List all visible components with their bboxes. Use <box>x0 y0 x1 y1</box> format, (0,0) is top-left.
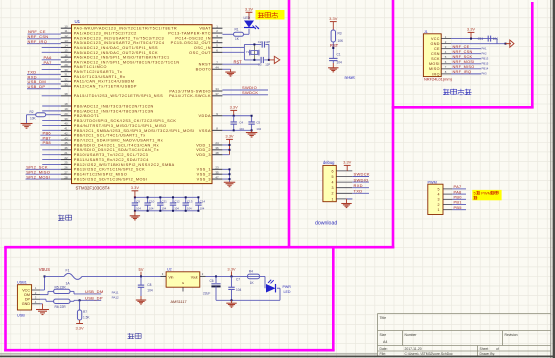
svg-text:19: 19 <box>64 107 68 111</box>
svg-text:Y1: Y1 <box>246 50 250 54</box>
svg-text:43: 43 <box>64 136 68 140</box>
svg-text:RST: RST <box>330 43 339 48</box>
svg-text:CSN: CSN <box>431 52 440 56</box>
svg-text:16: 16 <box>64 53 68 57</box>
svg-text:OSC_OUT: OSC_OUT <box>189 51 211 55</box>
svg-text:C10: C10 <box>149 200 155 204</box>
svg-text:PA2: PA2 <box>482 51 488 55</box>
svg-text:GND: GND <box>22 302 31 306</box>
svg-text:PA1/ADC123_IN1/T5C2/T2C2: PA1/ADC123_IN1/T5C2/T2C2 <box>74 31 137 35</box>
svg-text:Date:: Date: <box>380 347 388 351</box>
svg-text:PA8/T1C1/MCO: PA8/T1C1/MCO <box>74 65 107 69</box>
svg-text:104: 104 <box>187 207 192 211</box>
svg-text:3.3V: 3.3V <box>329 16 338 21</box>
svg-text:DM: DM <box>24 293 30 297</box>
svg-text:PC15-OSC32_OUT: PC15-OSC32_OUT <box>171 41 212 45</box>
svg-text:3: 3 <box>332 186 334 190</box>
svg-text:SWDCK: SWDCK <box>242 90 258 95</box>
svg-text:PA11: PA11 <box>112 291 119 295</box>
svg-text:3.3V: 3.3V <box>343 160 352 165</box>
svg-text:1.5K: 1.5K <box>83 316 90 320</box>
svg-text:1A: 1A <box>66 282 71 286</box>
svg-text:13: 13 <box>64 39 68 43</box>
svg-text:104: 104 <box>162 207 167 211</box>
svg-text:32: 32 <box>64 78 68 82</box>
svg-text:C:\Users\..\STM32\core.SchDoc: C:\Users\..\STM32\core.SchDoc <box>405 352 454 356</box>
svg-text:DP: DP <box>25 298 31 302</box>
svg-text:28: 28 <box>64 175 68 179</box>
svg-text:11: 11 <box>64 29 67 33</box>
svg-text:PWM: PWM <box>481 190 491 195</box>
svg-text:SWDCK: SWDCK <box>354 172 370 177</box>
svg-text:NRF24L01(mm): NRF24L01(mm) <box>424 77 453 82</box>
svg-text:5: 5 <box>332 175 334 179</box>
svg-text:download: download <box>315 220 337 226</box>
svg-text:104: 104 <box>200 207 205 211</box>
svg-text:PA13/JTMS-SWDIO: PA13/JTMS-SWDIO <box>169 89 211 93</box>
svg-text:VCC: VCC <box>431 37 440 41</box>
svg-text:PA10/T1C3/USART1_Rx: PA10/T1C3/USART1_Rx <box>74 75 126 79</box>
svg-text:LED: LED <box>284 290 291 294</box>
svg-text:USB_DM: USB_DM <box>85 289 103 294</box>
svg-text:U1: U1 <box>75 19 81 24</box>
svg-text:2: 2 <box>332 192 334 196</box>
svg-text:21: 21 <box>64 151 68 155</box>
svg-text:C11: C11 <box>478 37 484 41</box>
svg-text:C9: C9 <box>136 200 140 204</box>
svg-text:VBUS: VBUS <box>39 267 50 272</box>
svg-text:104: 104 <box>149 207 154 211</box>
svg-text:GND: GND <box>431 42 440 46</box>
svg-text:3.3V: 3.3V <box>227 266 236 271</box>
svg-text:41: 41 <box>64 127 68 131</box>
svg-text:23: 23 <box>215 166 219 170</box>
svg-text:PB8/SDIO_D4/I2C1_SCL/T4C3/CAN_: PB8/SDIO_D4/I2C1_SCL/T4C3/CAN_Rx <box>74 143 159 147</box>
svg-text:R7: R7 <box>83 310 87 314</box>
svg-text:1: 1 <box>438 208 440 212</box>
svg-text:3.3V: 3.3V <box>467 27 476 32</box>
svg-text:C8: C8 <box>147 283 151 287</box>
svg-text:PB9/SDIO_D5/I2C1_SDA/T4C4/CAN_: PB9/SDIO_D5/I2C1_SDA/T4C4/CAN_Tx <box>74 148 159 152</box>
svg-text:39: 39 <box>64 117 68 121</box>
svg-text:PC13-TAMPER-RTC: PC13-TAMPER-RTC <box>168 31 211 35</box>
svg-text:PA14/JTCK-SWCLK: PA14/JTCK-SWCLK <box>169 94 211 98</box>
svg-text:C12: C12 <box>174 200 180 204</box>
svg-text:104: 104 <box>493 37 499 41</box>
svg-text:C6: C6 <box>210 279 214 283</box>
svg-text:PB13/I2S2_CK/T1C1N/SPI2_SCK: PB13/I2S2_CK/T1C1N/SPI2_SCK <box>74 168 145 172</box>
svg-text:18: 18 <box>64 102 68 106</box>
svg-text:Revision: Revision <box>505 333 518 337</box>
svg-text:PWR: PWR <box>283 285 292 289</box>
svg-text:VDD_1: VDD_1 <box>196 143 211 147</box>
svg-text:34: 34 <box>215 87 219 91</box>
svg-text:22uF: 22uF <box>203 292 210 296</box>
svg-text:C1: C1 <box>337 53 341 57</box>
svg-text:2: 2 <box>438 203 440 207</box>
svg-text:PA3: PA3 <box>482 71 488 75</box>
svg-text:of: of <box>496 347 499 351</box>
svg-text:USB_DP: USB_DP <box>28 84 46 89</box>
svg-text:33: 33 <box>64 82 68 86</box>
svg-text:C5: C5 <box>256 120 260 124</box>
svg-text:3.3V: 3.3V <box>131 185 140 190</box>
svg-text:R1: R1 <box>235 28 239 32</box>
svg-text:36: 36 <box>215 146 219 150</box>
svg-text:42: 42 <box>64 131 68 135</box>
svg-text:PB14: PB14 <box>482 66 489 70</box>
svg-text:VSS_2: VSS_2 <box>197 173 211 177</box>
svg-text:PB11/USART3_Rx/I2C2_SDA/T2C4: PB11/USART3_Rx/I2C2_SDA/T2C4 <box>74 158 149 162</box>
svg-text:PB13: PB13 <box>482 56 489 60</box>
svg-text:31: 31 <box>64 73 68 77</box>
svg-text:5V: 5V <box>138 267 143 272</box>
svg-text:104: 104 <box>236 288 242 292</box>
svg-text:LED: LED <box>244 16 251 20</box>
svg-text:reset: reset <box>345 75 356 80</box>
svg-text:PB10/USART3_Tx/I2C2_SCL/T2C3: PB10/USART3_Tx/I2C2_SCL/T2C3 <box>74 153 149 157</box>
svg-text:2017-11-20: 2017-11-20 <box>405 347 422 351</box>
svg-text:12P: 12P <box>265 63 270 67</box>
svg-text:NRST: NRST <box>199 63 212 67</box>
svg-text:VDD_3: VDD_3 <box>196 153 211 157</box>
svg-text:C4: C4 <box>239 120 243 124</box>
svg-text:C14: C14 <box>200 200 206 204</box>
svg-text:SPI2_MOSI: SPI2_MOSI <box>26 174 50 179</box>
svg-text:OSC_IN: OSC_IN <box>194 46 211 50</box>
svg-text:TXD: TXD <box>354 189 363 194</box>
svg-text:File:: File: <box>380 352 386 356</box>
svg-text:PA0-WKUP/ADC123_IN0/T2C1ETR/T5: PA0-WKUP/ADC123_IN0/T2C1ETR/T5C1/T8ETR <box>74 27 177 31</box>
svg-text:Vout: Vout <box>191 275 198 279</box>
svg-text:PA1: PA1 <box>482 46 488 50</box>
svg-text:NRF_CSN: NRF_CSN <box>453 50 473 54</box>
svg-text:Title: Title <box>380 316 387 320</box>
svg-text:debug: debug <box>323 160 335 165</box>
svg-text:29: 29 <box>64 63 68 67</box>
svg-text:SCK: SCK <box>431 57 440 61</box>
svg-text:3.3V: 3.3V <box>225 134 234 139</box>
svg-text:104: 104 <box>337 60 343 64</box>
svg-text:C11: C11 <box>162 200 168 204</box>
svg-text:3.3V: 3.3V <box>75 325 84 330</box>
svg-text:Vin: Vin <box>169 275 174 279</box>
svg-text:PB6/I2C1_SCL/T4C1/USART1_Tx: PB6/I2C1_SCL/T4C1/USART1_Tx <box>74 134 146 138</box>
svg-text:4: 4 <box>438 193 440 197</box>
svg-text:PA6/ADC12_IN6/SPI1_MISO/T8TIBK: PA6/ADC12_IN6/SPI1_MISO/T8TIBKIN/T3C1 <box>74 56 170 60</box>
svg-text:CE: CE <box>434 47 440 51</box>
svg-text:A4: A4 <box>383 340 387 344</box>
svg-text:48: 48 <box>215 151 219 155</box>
svg-text:3: 3 <box>438 198 440 202</box>
svg-text:3.3V: 3.3V <box>245 7 254 12</box>
svg-text:Sheet: Sheet <box>480 347 489 351</box>
svg-text:104: 104 <box>239 127 244 131</box>
svg-text:104: 104 <box>174 207 179 211</box>
svg-text:RST: RST <box>234 59 243 64</box>
svg-text:4: 4 <box>332 181 334 185</box>
svg-text:PB12/I2S2_WS/T1BKIN/SPI2_NSS/I: PB12/I2S2_WS/T1BKIN/SPI2_NSS/I2C2_SMBA <box>74 163 175 167</box>
svg-text:PB14/T1C2N/SPI2_MISO: PB14/T1C2N/SPI2_MISO <box>74 173 127 177</box>
svg-text:12P: 12P <box>265 40 270 44</box>
svg-text:USB_DP: USB_DP <box>85 296 103 301</box>
svg-text:SWDIO: SWDIO <box>354 177 369 182</box>
svg-text:MISO: MISO <box>429 67 440 71</box>
svg-text:PB0/ADC12_IN8/T3C3/T8C2N/T1C2N: PB0/ADC12_IN8/T3C3/T8C2N/T1C2N <box>74 104 154 108</box>
svg-text:104: 104 <box>136 207 141 211</box>
svg-text:47: 47 <box>215 175 219 179</box>
svg-text:USB: USB <box>17 313 25 317</box>
svg-text:44: 44 <box>215 65 219 69</box>
svg-text:PB2/BOOT1: PB2/BOOT1 <box>74 114 100 118</box>
svg-text:BOOT0: BOOT0 <box>196 68 211 72</box>
svg-text:37: 37 <box>215 92 219 96</box>
svg-text:PA7: PA7 <box>44 60 53 65</box>
svg-text:U2: U2 <box>167 268 172 272</box>
svg-text:VDD_2: VDD_2 <box>196 148 211 152</box>
svg-text:30: 30 <box>64 68 68 72</box>
svg-text:PA4/ADC12_IN4/DAC_OUT1/SPI1_NS: PA4/ADC12_IN4/DAC_OUT1/SPI1_NSS <box>74 46 158 50</box>
svg-text:PA12: PA12 <box>112 295 119 299</box>
svg-text:PB5: PB5 <box>454 205 462 210</box>
svg-text:104: 104 <box>147 289 153 293</box>
svg-text:VCC: VCC <box>22 288 30 292</box>
svg-text:PA9/T1C2/USART1_Tx: PA9/T1C2/USART1_Tx <box>74 70 123 74</box>
svg-text:C7: C7 <box>236 277 240 281</box>
svg-text:R6 22R: R6 22R <box>55 305 67 309</box>
svg-text:PC14-OSC32_IN: PC14-OSC32_IN <box>175 36 211 40</box>
svg-text:38: 38 <box>64 92 68 96</box>
svg-text:PB15: PB15 <box>482 61 489 65</box>
svg-text:VSS_1: VSS_1 <box>197 168 211 172</box>
svg-text:R4: R4 <box>249 270 253 274</box>
svg-text:14: 14 <box>64 44 68 48</box>
svg-text:25: 25 <box>64 161 68 165</box>
svg-text:NRF_MISO: NRF_MISO <box>453 65 475 69</box>
svg-text:PA7/ADC12_IN7/SPI1_MOSI/T8C1N/: PA7/ADC12_IN7/SPI1_MOSI/T8C1N/T3C2/T1C1N <box>74 60 180 64</box>
svg-text:104: 104 <box>256 127 261 131</box>
svg-text:PB7/I2C1_SDA/FSMC_NADV/USART1_: PB7/I2C1_SDA/FSMC_NADV/USART1_Rx <box>74 138 163 142</box>
svg-text:17: 17 <box>64 58 68 62</box>
svg-text:35: 35 <box>215 170 219 174</box>
svg-text:VBAT: VBAT <box>199 27 211 31</box>
svg-text:Size: Size <box>380 333 387 337</box>
svg-text:PA11/CAN_Rx/T1C4/USBDM: PA11/CAN_Rx/T1C4/USBDM <box>74 80 135 84</box>
svg-text:PB4/NJTRST/SPI3_MISO/T3C1/SPI1: PB4/NJTRST/SPI3_MISO/T3C1/SPI1_MISO <box>74 124 167 128</box>
svg-text:VSSA: VSSA <box>199 129 211 133</box>
svg-text:F1: F1 <box>66 269 70 273</box>
svg-text:10: 10 <box>64 24 68 28</box>
svg-text:AMS1117: AMS1117 <box>171 300 187 304</box>
svg-text:PB15/I2S2_SD/T1C3N/SPI2_MOSI: PB15/I2S2_SD/T1C3N/SPI2_MOSI <box>74 177 148 181</box>
svg-text:PB1/ADC12_IN9/T3C4/T8C3N/T1C3N: PB1/ADC12_IN9/T3C4/T8C3N/T1C3N <box>74 109 154 113</box>
svg-text:VSS_3: VSS_3 <box>197 177 211 181</box>
svg-text:USB1: USB1 <box>17 281 27 285</box>
svg-text:5: 5 <box>438 187 440 191</box>
svg-text:40: 40 <box>64 122 68 126</box>
svg-text:22: 22 <box>64 156 68 160</box>
svg-text:R2: R2 <box>30 110 34 114</box>
svg-text:RXD: RXD <box>354 183 363 188</box>
svg-text:MOSI: MOSI <box>429 62 440 66</box>
svg-text:PA2/ADC123_IN2/USART2_Tx/T5C3/: PA2/ADC123_IN2/USART2_Tx/T5C3/T2C3 <box>74 36 164 40</box>
svg-text:15: 15 <box>64 49 68 53</box>
svg-text:PB3/JTDO/SPI3_SCK/I2S3_CK/T2C2: PB3/JTDO/SPI3_SCK/I2S3_CK/T2C2/SPI1_SCK <box>74 119 177 123</box>
svg-text:STM32F103C8T4: STM32F103C8T4 <box>76 185 111 190</box>
svg-text:PA12/CAN_Tx/T1ETR/USBDP: PA12/CAN_Tx/T1ETR/USBDP <box>74 85 137 89</box>
svg-text:R3: R3 <box>338 31 342 35</box>
svg-text:PB5/I2C1_SMBA/I2S3_SD/SPI3_MOS: PB5/I2C1_SMBA/I2S3_SD/SPI3_MOSI/T3C2/SPI… <box>74 129 195 133</box>
svg-text:6: 6 <box>332 169 334 173</box>
svg-text:45: 45 <box>64 141 68 145</box>
svg-text:46: 46 <box>64 146 68 150</box>
svg-text:VDDA: VDDA <box>198 114 211 118</box>
svg-text:Drawn By:: Drawn By: <box>480 352 496 356</box>
svg-text:10K: 10K <box>30 116 37 120</box>
svg-text:12: 12 <box>64 34 68 38</box>
svg-text:NRF_IRQ: NRF_IRQ <box>28 39 48 44</box>
svg-text:27: 27 <box>64 170 68 174</box>
svg-text:R5 22R: R5 22R <box>55 285 67 289</box>
svg-text:20: 20 <box>64 112 68 116</box>
svg-text:26: 26 <box>64 166 68 170</box>
svg-text:NRF_MOSI: NRF_MOSI <box>453 60 475 64</box>
svg-text:J1: J1 <box>424 30 428 34</box>
svg-text:24: 24 <box>215 141 219 145</box>
svg-text:NRF_CE: NRF_CE <box>453 45 470 49</box>
svg-text:PA3/ADC123_IN3/USART2_Rx/T5C4/: PA3/ADC123_IN3/USART2_Rx/T5C4/T2C4 <box>74 41 165 45</box>
svg-text:PB8: PB8 <box>43 140 52 145</box>
svg-text:C2: C2 <box>258 40 262 44</box>
svg-text:1: 1 <box>332 197 334 201</box>
svg-text:10K: 10K <box>338 39 345 43</box>
svg-text:NRF_IRQ: NRF_IRQ <box>453 70 472 74</box>
svg-text:PA15/JTDI/I2S3_WS/T2C1ETR/SPI3: PA15/JTDI/I2S3_WS/T2C1ETR/SPI3_NSS <box>74 94 163 98</box>
svg-text:Number: Number <box>405 333 418 337</box>
svg-text:C13: C13 <box>187 200 193 204</box>
svg-text:3.3V: 3.3V <box>230 105 239 110</box>
svg-text:NRF_SCK: NRF_SCK <box>453 55 473 59</box>
svg-text:PA5/ADC12_IN5/DAC_OUT2/SPI1_SC: PA5/ADC12_IN5/DAC_OUT2/SPI1_SCK <box>74 51 158 55</box>
